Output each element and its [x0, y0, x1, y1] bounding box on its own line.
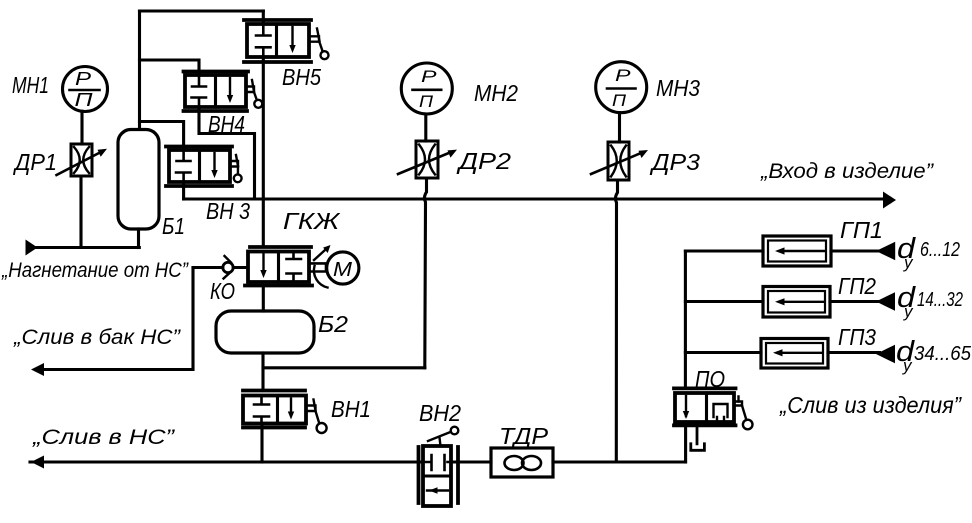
svg-text:ВН5: ВН5	[282, 64, 321, 90]
svg-text:у: у	[903, 253, 914, 272]
svg-text:М: М	[333, 259, 352, 281]
svg-text:34...65: 34...65	[914, 343, 972, 365]
svg-text:„Слив в НС”: „Слив в НС”	[32, 426, 175, 449]
svg-text:ГП1: ГП1	[840, 217, 883, 243]
svg-text:МН2: МН2	[474, 80, 518, 106]
svg-text:П: П	[612, 91, 627, 110]
svg-text:П: П	[75, 90, 94, 110]
svg-text:14...32: 14...32	[917, 289, 963, 311]
svg-text:Б1: Б1	[162, 213, 185, 239]
svg-text:ТДР: ТДР	[499, 423, 549, 449]
svg-text:Р: Р	[75, 69, 91, 89]
svg-text:„Вход в изделие”: „Вход в изделие”	[760, 160, 934, 183]
svg-text:ГП3: ГП3	[838, 324, 876, 350]
svg-text:ГКЖ: ГКЖ	[283, 208, 341, 234]
svg-text:„Слив в бак НС”: „Слив в бак НС”	[13, 326, 181, 349]
svg-text:МН1: МН1	[12, 72, 49, 98]
svg-text:МН3: МН3	[656, 75, 700, 101]
svg-text:„Нагнетание от НС”: „Нагнетание от НС”	[1, 259, 189, 282]
svg-text:Р: Р	[421, 67, 437, 86]
svg-text:П: П	[419, 92, 434, 111]
svg-text:6...12: 6...12	[920, 239, 960, 261]
svg-text:у: у	[902, 356, 913, 375]
svg-text:ВН1: ВН1	[331, 396, 371, 422]
svg-text:Р: Р	[615, 66, 631, 85]
svg-text:ДР3: ДР3	[649, 149, 700, 175]
svg-text:ВН4: ВН4	[208, 111, 245, 137]
svg-text:КО: КО	[210, 278, 235, 304]
svg-text:ПО: ПО	[695, 366, 725, 392]
svg-text:Б2: Б2	[318, 311, 348, 337]
svg-text:ДР1: ДР1	[12, 149, 57, 175]
svg-text:ДР2: ДР2	[455, 148, 511, 174]
svg-text:„Слив из изделия”: „Слив из изделия”	[779, 392, 962, 418]
svg-text:ВН2: ВН2	[419, 400, 461, 426]
svg-text:ГП2: ГП2	[838, 273, 876, 299]
svg-text:у: у	[903, 302, 914, 321]
svg-text:ВН 3: ВН 3	[206, 198, 250, 224]
